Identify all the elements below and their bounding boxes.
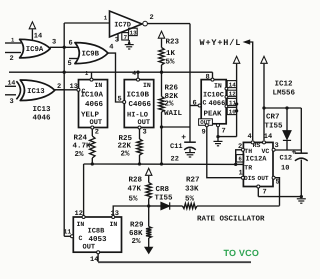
svg-text:R27: R27 <box>186 176 200 185</box>
svg-text:13: 13 <box>111 210 119 218</box>
wire: IC7D output pin 2 right <box>147 23 190 25</box>
wire pin7 down to ground node <box>217 127 219 137</box>
svg-text:1: 1 <box>85 70 89 77</box>
pin circle 12-11 IC10C <box>225 96 228 99</box>
svg-text:C4066: C4066 <box>129 100 152 109</box>
power arrow pin 14 of IC9A <box>31 29 33 40</box>
junction dot R28/R29/CR8 <box>147 204 150 207</box>
wire: horizontal to IC7D pin 1 <box>64 22 110 24</box>
resistor R23 <box>159 48 164 66</box>
node A junction dot <box>63 46 66 49</box>
svg-text:6: 6 <box>238 156 242 163</box>
switch box IC10B 4066 HI-LO <box>124 80 153 128</box>
svg-text:13: 13 <box>130 29 137 36</box>
svg-text:14: 14 <box>8 80 16 87</box>
pin 4 circle IC12A <box>251 141 254 144</box>
boxed pin 10 IC10C <box>227 107 236 114</box>
wire R29 top <box>148 206 150 227</box>
svg-text:4066: 4066 <box>209 100 226 108</box>
switch box IC10C 4066 PEAK <box>201 80 226 124</box>
resistor R23 power arrow <box>158 31 164 38</box>
wire R23 top <box>161 39 163 48</box>
svg-text:CR7: CR7 <box>266 113 280 122</box>
wire: branch to IC10C control pin 6 <box>190 105 198 107</box>
svg-text:5: 5 <box>68 60 72 68</box>
svg-text:7: 7 <box>124 34 128 41</box>
control pin circle IC10A pin 13 <box>77 88 80 91</box>
wire horizontal y=108 <box>264 107 301 109</box>
svg-text:3: 3 <box>275 142 279 150</box>
svg-text:DIS: DIS <box>244 175 255 182</box>
svg-text:C12: C12 <box>280 155 293 163</box>
wire to C11 top <box>162 126 191 128</box>
pin 8 circle IC10C <box>211 78 214 81</box>
svg-text:5: 5 <box>118 96 122 104</box>
xor-gate IC13 <box>20 80 55 101</box>
pin 7 circle IC10C <box>217 124 220 127</box>
wire: input stub pin 2 of IC9A <box>5 52 21 54</box>
svg-text:47K: 47K <box>128 186 142 194</box>
wire IC13 output <box>55 89 64 91</box>
resistor R26 <box>159 97 164 113</box>
pin 13 circle IC8B <box>112 216 115 219</box>
svg-text:14: 14 <box>229 82 236 89</box>
junction dot node A on top bus <box>63 71 66 74</box>
svg-text:W+Y+H/L: W+Y+H/L <box>200 38 242 48</box>
wire pin1 to bus <box>91 72 93 78</box>
junction dot right ground <box>300 195 303 198</box>
wire TH left and down to TR node <box>236 150 242 165</box>
wire OUT pin5 right then down to R27 line <box>275 178 279 206</box>
svg-text:22: 22 <box>171 156 179 164</box>
wire: node A down to IC8B pin 11 <box>63 47 65 236</box>
wire R26 bottom to bus2 <box>161 112 163 164</box>
wire: IC9A output pin 3 to node A and IC9B input 6 <box>50 46 78 48</box>
wire bus2 y=164 (TH/TR bus) <box>84 163 244 165</box>
svg-text:5%: 5% <box>129 196 139 204</box>
svg-text:5%: 5% <box>185 196 195 204</box>
ground under IC7D <box>125 44 134 46</box>
pin circle 14-12 IC10C <box>225 87 228 90</box>
control pin 6 circle IC10C <box>198 104 201 107</box>
wire C12 bottom to ground line <box>300 160 302 197</box>
svg-text:6: 6 <box>69 40 73 48</box>
or-gate IC9A <box>20 39 51 58</box>
wire R23 bottom to bus <box>161 65 163 72</box>
svg-text:68K: 68K <box>129 229 143 238</box>
svg-text:R28: R28 <box>129 176 143 185</box>
svg-text:5%: 5% <box>166 59 176 67</box>
svg-text:7: 7 <box>222 128 226 136</box>
svg-text:OUT: OUT <box>83 244 96 252</box>
arrowhead to W+Y+H/L <box>244 40 250 44</box>
svg-text:C: C <box>82 88 86 95</box>
svg-text:IC10C: IC10C <box>203 92 224 100</box>
wire: IC7D ground stub <box>128 40 130 43</box>
svg-text:10: 10 <box>229 109 236 116</box>
svg-text:R24: R24 <box>74 134 88 143</box>
svg-text:1: 1 <box>239 170 243 178</box>
wire: input stub pin 14 of IC13 <box>5 85 16 87</box>
junction dot pin 11 rail <box>235 102 238 105</box>
pin 14 circle IC12A <box>263 141 266 144</box>
junction dot pin4/bus <box>136 71 139 74</box>
wire: input stub pin 3 of IC13 <box>5 94 16 96</box>
or-gate IC9B <box>75 43 108 64</box>
boxed pin 12 IC10C <box>227 90 236 96</box>
svg-text:11: 11 <box>64 229 72 236</box>
wire R28 bottom to junction <box>148 199 150 207</box>
pin 5 OUT circle IC12A <box>272 176 275 179</box>
wire pin7 down to ground line <box>257 188 259 197</box>
junction dot ground node <box>216 135 219 138</box>
wire: node A up to IC7D input <box>63 23 65 47</box>
pin 2 circle IC10A out <box>91 126 94 129</box>
wire rail R26 from bus down <box>161 72 163 96</box>
capacitor C11 plates <box>184 141 196 143</box>
svg-text:22K: 22K <box>118 142 132 151</box>
resistor R29 <box>146 227 151 239</box>
wire R27 to OUT drop <box>197 205 280 207</box>
pin 2 TH circle IC12A <box>241 148 244 151</box>
wire from arrow right then down to IC12A pin 4 <box>250 42 253 140</box>
boxed pin 14 IC10C <box>227 81 236 88</box>
svg-text:IC13: IC13 <box>27 88 45 96</box>
inverter output bubble <box>143 21 148 26</box>
pin 9 circle IC10C out <box>205 124 208 127</box>
svg-text:TI55: TI55 <box>155 195 174 203</box>
wire VC pin 3 to C12 rail <box>275 149 301 151</box>
pin stub 3 of IC7D <box>117 34 119 41</box>
svg-text:IC13: IC13 <box>33 105 52 114</box>
wire: IC9B output pin 4 down to IC10B control <box>108 53 123 102</box>
boxed pin 13 of IC7D <box>129 28 138 35</box>
pin 1 DIS circle IC12A <box>241 176 244 179</box>
svg-text:4: 4 <box>132 70 136 77</box>
junction dot C11 branch <box>160 125 163 128</box>
analog switch box IC8B 4053 <box>73 217 121 252</box>
pin 11 circle IC8B <box>71 235 74 238</box>
junction dot R26 rail/bus2 <box>160 162 163 165</box>
svg-text:14: 14 <box>264 133 272 141</box>
svg-text:4: 4 <box>248 133 252 141</box>
svg-text:IN: IN <box>110 221 118 228</box>
wire R24 bottom to bus2 <box>91 158 93 164</box>
wire rail down to C12 <box>300 108 302 153</box>
wire bus2 left corner down to IC8B pin 12 <box>83 164 85 216</box>
junction dot R25/bus2 <box>138 162 141 165</box>
wire rate line left part (junction to diode) <box>149 205 161 207</box>
wire pin4 to bus <box>137 72 139 78</box>
ground under C11 <box>185 152 195 154</box>
wire ground line y=196.6 <box>258 196 301 198</box>
pin 7 circle IC12A bottom <box>257 185 260 188</box>
resistor R27 <box>183 203 198 208</box>
svg-text:6: 6 <box>193 100 197 108</box>
wire bus down to pin 8 <box>212 72 214 78</box>
power arrow IC10C rail <box>233 56 239 63</box>
svg-text:R26: R26 <box>165 84 179 93</box>
wire rail right of IC10C <box>236 64 238 137</box>
svg-text:1: 1 <box>11 36 15 43</box>
negative supply arrow under R29 <box>145 247 153 253</box>
svg-text:9: 9 <box>202 129 206 137</box>
wire to VCO output line <box>98 261 251 263</box>
svg-text:IC10B: IC10B <box>127 91 150 100</box>
wire: IC9B lower input stub pin 5 <box>69 58 78 60</box>
pin 3 VC circle IC12A <box>272 148 275 151</box>
svg-text:14: 14 <box>34 33 42 41</box>
svg-text:IN: IN <box>143 82 151 89</box>
wire IC10A pin2 to R24 <box>91 129 93 136</box>
resistor R25 <box>137 139 142 155</box>
ground under IC10C pin 7 <box>214 140 223 142</box>
junction dot R24/bus2 <box>91 162 94 165</box>
svg-text:3: 3 <box>52 39 56 47</box>
svg-text:1K: 1K <box>166 50 176 58</box>
svg-text:IC9B: IC9B <box>82 51 100 59</box>
pin 3 circle IC10B out <box>138 126 141 129</box>
power arrow R28 <box>146 168 152 175</box>
junction dot TH/TR node <box>234 163 237 166</box>
boxed pin 7 of IC7D <box>122 33 129 40</box>
svg-text:3: 3 <box>143 129 147 137</box>
svg-text:2%: 2% <box>75 150 85 159</box>
svg-text:RATE OSCILLATOR: RATE OSCILLATOR <box>197 215 265 224</box>
wire diode to R27 <box>170 205 183 207</box>
svg-text:IC12A: IC12A <box>246 156 268 164</box>
svg-text:2: 2 <box>10 55 14 63</box>
svg-text:IC12: IC12 <box>275 80 294 89</box>
svg-text:IC9A: IC9A <box>26 46 44 54</box>
svg-text:12: 12 <box>75 210 83 218</box>
svg-text:R29: R29 <box>130 221 144 230</box>
control pin circle IC10B pin 5 <box>123 101 126 104</box>
svg-text:R23: R23 <box>166 38 180 47</box>
svg-text:C11: C11 <box>170 143 183 151</box>
svg-text:CR8: CR8 <box>156 185 170 194</box>
svg-text:2: 2 <box>95 129 99 137</box>
junction dot R23/bus <box>160 71 163 74</box>
svg-text:+: + <box>181 134 186 143</box>
junction dot at y108 <box>262 106 265 109</box>
power arrow IC12 pin 14 rail <box>261 56 267 63</box>
wire R29 bottom <box>148 238 150 247</box>
svg-text:4: 4 <box>109 44 113 52</box>
wire: top bus y=72 <box>9 71 213 73</box>
diode CR8 <box>161 202 170 209</box>
wire down from power arrow to IC12A pin 14 <box>263 64 265 140</box>
pin 14 circle IC8B out <box>97 251 100 254</box>
svg-text:10: 10 <box>281 165 289 173</box>
svg-text:12: 12 <box>229 91 236 98</box>
wire IC10C pin9 down to DIS <box>207 127 242 178</box>
svg-text:TO VCO: TO VCO <box>224 248 260 258</box>
switch box IC10A 4066 YELP <box>79 80 108 128</box>
svg-text:7: 7 <box>263 189 267 197</box>
svg-text:TI55: TI55 <box>265 123 284 131</box>
boxed pin 6 IC12A <box>236 155 243 162</box>
wire R28 top <box>148 176 150 183</box>
wire IC8B pin14 down to VCO line <box>97 254 99 262</box>
svg-text:WAIL: WAIL <box>164 110 183 118</box>
resistor R24 <box>90 136 95 158</box>
svg-text:3: 3 <box>10 98 14 106</box>
svg-text:8: 8 <box>206 74 210 82</box>
pin 12 circle IC8B <box>82 216 85 219</box>
svg-text:IN: IN <box>95 82 103 89</box>
svg-text:C: C <box>203 100 207 107</box>
svg-text:IN: IN <box>77 221 85 228</box>
svg-text:2%: 2% <box>121 150 131 159</box>
junction dot CR7 top <box>285 106 288 109</box>
svg-text:C: C <box>79 235 83 242</box>
wire IC10B pin3 to R25 <box>139 129 141 139</box>
pin circle 11-10 IC10C <box>225 105 228 108</box>
svg-text:IC8B: IC8B <box>88 228 106 236</box>
svg-text:PEAK: PEAK <box>204 110 223 118</box>
svg-text:LM556: LM556 <box>273 89 296 98</box>
capacitor C12 plates <box>295 152 308 154</box>
OUT box IC10C <box>199 119 213 126</box>
timer block IC12A <box>243 142 273 186</box>
svg-text:TR: TR <box>244 165 252 172</box>
svg-text:TH: TH <box>244 148 252 155</box>
wire IC8B pin13 up and right to R28/R29 junction <box>113 206 149 216</box>
svg-text:2%: 2% <box>165 100 175 109</box>
pin 1 circle IC10A <box>90 78 93 81</box>
wire ground node to rail <box>218 136 237 138</box>
wire down to ground symbol <box>217 137 219 142</box>
svg-text:2: 2 <box>150 14 154 22</box>
junction dot pin 10 rail <box>235 109 238 112</box>
boxed pin 11 IC10C <box>227 98 236 105</box>
wire: input stub pin 1 of IC9A <box>5 42 21 44</box>
wire: IC7D output down to C11 and IC10C pin 6 <box>189 24 191 142</box>
svg-text:IN: IN <box>214 82 222 89</box>
ground symbol right rail <box>297 198 306 200</box>
svg-text:33K: 33K <box>185 185 199 194</box>
wire node A to IC8B pin 11 <box>64 235 70 237</box>
svg-text:OUT: OUT <box>258 175 269 182</box>
wire C11 bottom to ground <box>189 149 191 153</box>
svg-text:1: 1 <box>104 14 108 21</box>
svg-text:VC: VC <box>262 148 270 155</box>
resistor R28 <box>146 183 151 199</box>
svg-text:14: 14 <box>90 256 98 264</box>
diode CR7 <box>286 108 288 131</box>
wire R25 bottom to bus2 <box>139 155 141 164</box>
pin 4 circle IC10B <box>137 78 140 81</box>
svg-text:4066: 4066 <box>85 100 104 109</box>
svg-text:2%: 2% <box>132 237 142 246</box>
svg-text:4046: 4046 <box>33 114 52 123</box>
inverter IC7D <box>110 11 143 37</box>
wire IC13 output to IC10A control <box>55 89 77 91</box>
